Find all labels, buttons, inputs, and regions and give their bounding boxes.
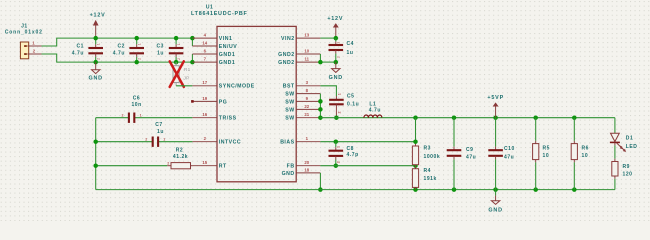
resistor R6 (10) [571,118,589,190]
junction FB/R3/R4 [413,163,418,168]
svg-text:SW: SW [285,91,294,97]
DNP cross over R1 [170,61,184,87]
U1 pin 3 (BST) [283,80,321,89]
svg-text:GND1: GND1 [219,60,235,66]
resistor R2 (41.2k) on RT [96,147,193,168]
svg-text:VIN2: VIN2 [281,36,295,42]
svg-text:0.1u: 0.1u [347,101,359,107]
U1 pin 21 (SW) [285,112,320,121]
svg-text:2: 2 [177,58,181,60]
svg-text:BIAS: BIAS [280,140,294,146]
svg-text:2: 2 [337,112,341,114]
+5VP power symbol [487,95,504,118]
ground symbol under C4 [329,62,343,81]
wire GND pin18 to bottom rail [319,173,321,190]
U1 pin 10 (GND2) [278,48,320,57]
svg-text:C10: C10 [504,146,515,152]
resistor R1 (JP, DNP) [173,62,191,86]
ground symbol under C1 [89,62,103,82]
junction SW pins [318,99,323,120]
svg-text:1: 1 [177,43,181,45]
svg-text:2: 2 [138,58,142,60]
svg-text:C2: C2 [118,44,126,50]
svg-text:4.7u: 4.7u [369,108,381,114]
junction dots output rail [413,115,576,120]
wire SW pins vertical bus [319,94,321,118]
U1 pin 6 (GND1) [192,48,235,57]
wire VIN2 to +12V [320,37,335,39]
svg-text:LT8641EUDC-PBF: LT8641EUDC-PBF [191,11,248,17]
svg-text:GND1: GND1 [219,52,235,58]
svg-text:10: 10 [582,153,589,159]
svg-text:1u: 1u [157,129,164,135]
svg-text:16: 16 [202,112,207,117]
U1 pin 9 (SW) [285,96,320,105]
U1 pin 22 (SW) [285,104,320,113]
wire EN/UV drop [191,38,193,46]
IC U1 LT8641EUDC-PBF body [191,4,296,181]
U1 pin 11 (GND2) [278,57,320,66]
svg-text:INTVCC: INTVCC [219,140,241,146]
svg-text:SW: SW [285,116,294,122]
svg-text:14: 14 [202,40,207,45]
LED D1 [610,118,638,152]
U1 pin 17 (SYNC/MODE) [192,80,254,89]
svg-text:R4: R4 [424,168,432,174]
svg-text:4.7p: 4.7p [347,152,359,158]
U1 pin 18 (GND) [282,167,321,176]
svg-text:20: 20 [304,160,309,165]
svg-text:13: 13 [304,33,309,38]
svg-text:R9: R9 [623,164,631,170]
capacitor C8 (4.7p) [329,142,359,166]
U1 pin 2 (INTVCC) [192,136,241,145]
svg-text:R1: R1 [184,67,191,73]
svg-text:10: 10 [543,153,550,159]
wire bottom GND rail [96,189,615,191]
wire FB to divider [320,165,415,167]
U1 pin 20 (FB) [287,160,321,169]
svg-text:17: 17 [202,80,207,85]
svg-text:FB: FB [287,164,295,170]
svg-text:RT: RT [219,164,227,170]
+12V power symbol (left) [90,12,106,38]
svg-text:BST: BST [283,84,295,90]
resistor R3 (1000k) [412,118,440,166]
svg-text:120: 120 [623,171,633,177]
svg-text:C7: C7 [155,122,163,128]
svg-text:2: 2 [337,161,341,163]
svg-text:R6: R6 [582,145,590,151]
svg-text:19: 19 [202,96,207,101]
capacitor C6 (10n) on TR/SS [96,95,193,123]
wire J1 pin2 to GND rail [42,54,193,62]
svg-text:GND: GND [488,208,502,214]
svg-text:VIN1: VIN1 [219,36,233,42]
+12V power symbol (right) [327,16,343,38]
svg-text:1: 1 [140,114,142,118]
capacitor C10 (47u) [488,118,515,190]
svg-text:1u: 1u [347,50,354,56]
svg-text:C9: C9 [466,147,474,153]
svg-text:4.7u: 4.7u [113,51,125,57]
junction dots +12V rail [93,36,194,41]
ground symbol bottom [488,190,502,214]
capacitor C9 (47u) [447,118,477,190]
svg-text:EN/UV: EN/UV [219,44,237,50]
wire BST to C5 [320,86,336,96]
resistor R4 (191k) [412,166,436,190]
U1 pin 8 (SW) [285,88,320,97]
svg-text:GND: GND [282,171,295,177]
U1 pin 19 (PG) [191,96,227,105]
wire R1 to SYNC/MODE pin [176,85,192,87]
capacitor C1 (4.7u) [72,38,103,62]
svg-text:1: 1 [337,42,341,44]
svg-text:10n: 10n [131,102,141,108]
inductor L1 (4.7u) [364,102,382,118]
svg-text:22: 22 [304,104,309,109]
svg-text:2: 2 [337,56,341,58]
wire L1 to output rail [382,117,615,119]
wire SW to L1 [320,117,382,119]
svg-text:191k: 191k [424,176,437,182]
wire GND2 pins join [320,54,335,62]
svg-text:41.2k: 41.2k [173,154,188,160]
svg-text:GND2: GND2 [278,60,294,66]
svg-text:2: 2 [122,114,124,118]
svg-text:4.7u: 4.7u [72,51,84,57]
svg-text:C5: C5 [347,93,355,99]
svg-text:1u: 1u [157,51,164,57]
junction C7/left rail [93,139,98,144]
svg-text:10: 10 [304,48,309,53]
junction dots bottom rail [413,187,576,192]
U1 pin 1 (BIAS) [280,136,320,145]
U1 pin 7 (GND1) [192,57,235,66]
svg-text:+12V: +12V [327,16,343,22]
svg-text:JP: JP [183,75,189,81]
svg-text:LED: LED [626,144,638,150]
svg-text:+12V: +12V [90,12,106,18]
U1 pin 15 (RT) [192,160,227,169]
svg-text:C3: C3 [157,44,165,50]
wire GND1 pin6 drop [191,54,193,62]
svg-text:J1: J1 [21,23,28,29]
capacitor C2 (4.7u) [113,38,144,62]
resistor R5 (10) [533,118,550,190]
junction GND2 pin11 [318,60,338,65]
capacitor C7 (1u) on INTVCC [96,122,193,147]
svg-text:2: 2 [145,138,147,142]
svg-text:21: 21 [304,112,309,117]
U1 pin 4 (VIN1) [192,33,232,42]
svg-text:C6: C6 [133,95,141,101]
svg-text:47u: 47u [466,154,476,160]
svg-text:R3: R3 [424,146,432,152]
capacitor C4 (1u) [329,38,355,62]
wire BIAS to output node [320,141,415,143]
svg-text:+5VP: +5VP [487,95,504,101]
svg-text:2: 2 [167,162,169,166]
svg-text:PG: PG [219,99,228,105]
svg-text:Conn_01x02: Conn_01x02 [5,30,43,36]
capacitor C5 (0.1u) bootstrap [329,93,359,118]
svg-text:R5: R5 [543,145,551,151]
svg-text:GND2: GND2 [278,52,294,58]
svg-text:C1: C1 [77,44,85,50]
svg-text:1: 1 [163,138,165,142]
svg-text:SW: SW [285,99,294,105]
junction VIN2/C4 [334,36,339,41]
U1 pin 13 (VIN2) [281,33,320,42]
svg-text:1: 1 [97,43,101,45]
svg-text:GND: GND [329,75,343,81]
svg-text:15: 15 [202,160,207,165]
svg-text:1: 1 [337,93,341,95]
wire J1 pin1 to +12V top rail [42,38,193,46]
svg-text:2: 2 [97,58,101,60]
junction C5/SW rail [334,115,339,120]
svg-text:SYNC/MODE: SYNC/MODE [219,84,255,90]
svg-text:47u: 47u [504,154,514,160]
svg-text:C4: C4 [347,41,355,47]
wire left vertical rail [95,118,97,190]
junction C8/FB [334,163,339,168]
svg-text:D1: D1 [626,135,634,141]
svg-text:TR/SS: TR/SS [219,116,237,122]
junction dots GND rail [93,60,194,65]
resistor R9 (120) [612,142,633,189]
svg-text:1000k: 1000k [424,154,441,160]
junction R2/left rail [93,163,98,168]
svg-text:1: 1 [337,146,341,148]
capacitor C3 (1u) [157,38,184,62]
svg-text:GND: GND [89,76,103,82]
svg-text:18: 18 [304,167,309,172]
svg-text:1: 1 [138,43,142,45]
U1 pin 16 (TR/SS) [192,112,236,121]
svg-text:R2: R2 [176,147,184,153]
svg-text:U1: U1 [206,4,214,10]
junction BIAS/C8 [334,139,339,144]
svg-text:11: 11 [305,57,310,62]
svg-text:SW: SW [285,107,294,113]
U1 pin 14 (EN/UV) [192,40,237,49]
junction GND18/bottom rail [318,187,323,192]
connector J1 (Conn_01x02) [5,23,43,59]
